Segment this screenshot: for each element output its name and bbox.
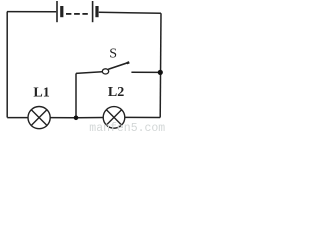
- wire bottom-left from corner to lamp L1: [7, 117, 28, 119]
- switch S blade (open): [108, 62, 128, 69]
- battery cell 1 long plate (+): [56, 1, 58, 22]
- lamp L2: [103, 107, 125, 129]
- lamp L1: [28, 107, 50, 129]
- wire right vertical: [159, 13, 162, 117]
- svg-text:L2: L2: [108, 85, 124, 100]
- battery dashed gap: [66, 13, 88, 15]
- battery cell 2 short plate (-): [95, 6, 98, 17]
- wire switch to node B: [131, 71, 160, 73]
- wire left vertical: [6, 12, 8, 118]
- switch S blade tip nub: [127, 61, 130, 64]
- wire switch-branch horizontal to pivot: [76, 72, 102, 74]
- svg-text:S: S: [109, 46, 117, 61]
- switch S pivot circle: [102, 69, 108, 74]
- svg-text:L1: L1: [33, 86, 49, 101]
- svg-text:manfen5.com: manfen5.com: [89, 122, 165, 133]
- wire from lamp L1 to node A: [50, 117, 76, 119]
- wire top-right from battery to corner: [99, 11, 161, 14]
- node A junction dot: [74, 116, 79, 121]
- battery cell 1 short plate (-): [60, 6, 63, 17]
- wire switch-branch vertical: [75, 73, 77, 117]
- wire from lamp L2 to bottom-right corner: [125, 116, 161, 118]
- wire top-left from corner to battery: [7, 11, 56, 13]
- node B junction dot: [158, 70, 163, 75]
- wire from node A to lamp L2: [76, 117, 104, 119]
- battery cell 2 long plate (+): [92, 1, 94, 22]
